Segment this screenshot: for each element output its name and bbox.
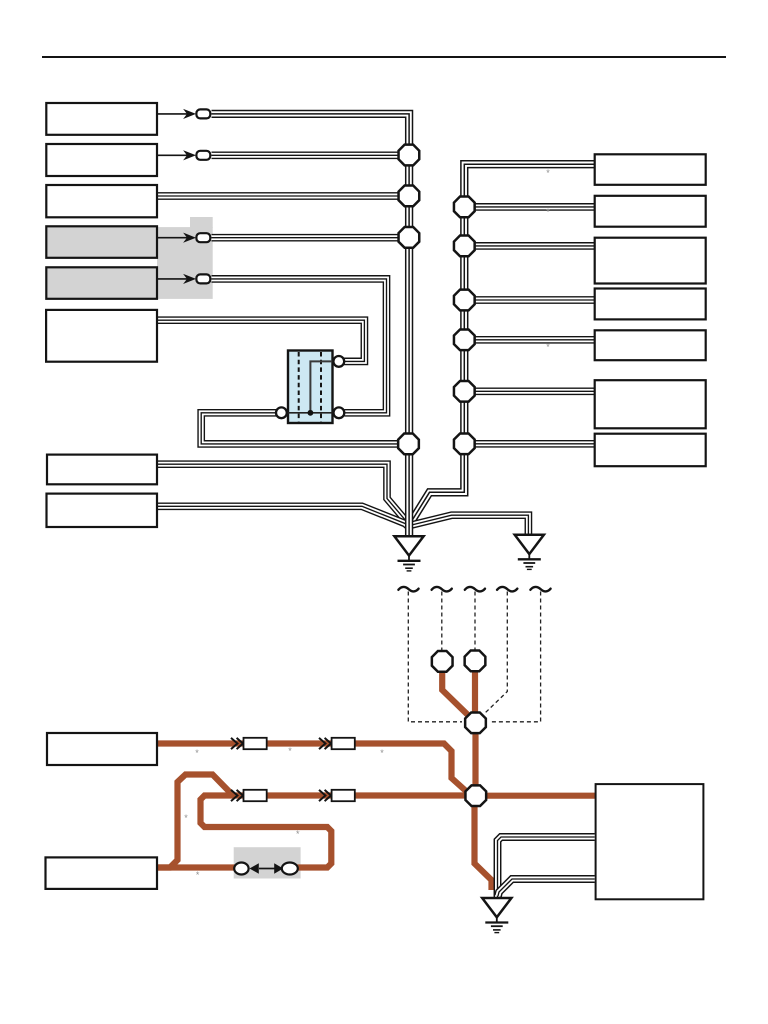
wire from box B4 (212, 234, 400, 242)
ground symbol T2 (515, 535, 544, 570)
connector pair thin link line (259, 868, 275, 870)
box B2 (46, 144, 157, 176)
triple wire bundle A from big box (498, 837, 595, 897)
box B1 (46, 103, 157, 135)
brown wire octagon D to big box (486, 793, 596, 799)
inline connector rect row1 b (332, 738, 355, 749)
svg-text:*: * (288, 746, 292, 756)
brown wire loop from connector pair back through row2 to octagon D (201, 796, 466, 868)
wire from box B8 to ground point (157, 506, 409, 527)
wire from box B2 (212, 151, 400, 159)
inline connector rect row2 a (244, 790, 267, 801)
junction connector internal busbar (310, 361, 333, 412)
dashed link 5 (490, 592, 541, 722)
box R6 (595, 380, 706, 428)
brown wire box BL2 up-and-over to row2 (157, 775, 233, 868)
brown wire octagon A to octagon C (442, 668, 470, 717)
box B6 (46, 310, 157, 362)
chevron connector row2 a (231, 790, 243, 801)
brown wire octagon C to octagon D (472, 730, 478, 788)
box R1 (595, 154, 706, 185)
inline connector rect row2 b (332, 790, 355, 801)
dashed link 1 (408, 592, 462, 722)
junction connector dashed split lines (298, 352, 300, 422)
wire to box R4 (464, 296, 595, 304)
junction connector internal joint dot (308, 410, 314, 416)
break tilde 1 (398, 587, 418, 592)
connector symbol on B5 wire (157, 274, 210, 283)
octagon node B (465, 651, 486, 672)
big box ECU (596, 784, 704, 899)
svg-text:*: * (296, 829, 300, 839)
ground symbol T1 (394, 536, 423, 571)
wire from box B3 (157, 192, 399, 200)
junction connector pin bottom right (334, 407, 345, 418)
connector symbol on B2 wire (157, 151, 210, 160)
wire to box R6 (464, 387, 595, 395)
dashed link 4 (485, 592, 508, 714)
svg-text:*: * (546, 168, 550, 178)
octagon node right bus 3 (454, 290, 475, 311)
brown wire box BL2 to connector pair (157, 864, 240, 870)
octagon node D (465, 785, 486, 806)
wire to box R3 (464, 242, 595, 250)
wire to box R5 (464, 336, 595, 344)
brown wire octagon B to octagon C (472, 668, 478, 715)
chevron connector row1 b (319, 738, 331, 749)
box B8 (47, 494, 158, 527)
wire to box R7 (464, 440, 595, 448)
chevron connector row1 a (231, 738, 243, 749)
chevron connector row2 b (319, 790, 331, 801)
break tilde 5 (530, 587, 550, 592)
right bus with wire to box R1 and drop to ground point (410, 164, 595, 524)
brown wire row1 from box BL1 (157, 744, 467, 792)
svg-text:*: * (546, 207, 550, 217)
octagon node left bus 3 (399, 227, 420, 248)
box R3 (595, 238, 706, 284)
dashed link 2 (441, 592, 443, 651)
svg-text:*: * (195, 748, 199, 758)
box R7 (595, 434, 706, 467)
svg-text:*: * (380, 748, 384, 758)
svg-text:*: * (546, 342, 550, 352)
brown wire octagon D down to ground T3 (475, 806, 492, 890)
octagon node left bus 4 (398, 434, 419, 455)
octagon node right bus 4 (454, 329, 475, 350)
box BL1 (47, 733, 157, 765)
octagon node right bus 2 (454, 236, 475, 257)
triple wire bundle B from big box (498, 879, 595, 896)
box R4 (595, 289, 706, 320)
break tilde 4 (497, 587, 517, 592)
box B7 (47, 455, 157, 485)
connector symbol on B1 wire (157, 109, 210, 118)
svg-text:*: * (184, 813, 188, 823)
octagon node A (432, 651, 453, 672)
connector symbol on B4 wire (157, 233, 210, 242)
footnote asterisk marks (184, 168, 550, 880)
wire from box B5 to junction connector (212, 279, 387, 413)
gray shade behind connector pair (234, 847, 301, 878)
inline connector rect row1 a (244, 738, 267, 749)
connector pair right arrow (274, 863, 283, 873)
junction connector J1 body (288, 351, 333, 424)
octagon node right bus 1 (454, 197, 475, 218)
svg-text:*: * (196, 870, 200, 880)
wire node to right ground T2 (410, 515, 529, 535)
octagon node right bus 5 (454, 381, 475, 402)
wire junction connector to node E octagon (201, 413, 399, 444)
octagon node C (465, 712, 486, 733)
box R2 (595, 196, 706, 227)
octagon node left bus 2 (399, 186, 420, 207)
connector pair right ellipse (282, 863, 298, 875)
wire from box B7 to ground point (157, 464, 409, 527)
wire from box B6 to junction connector (157, 320, 364, 361)
left main bus from box B1 down to ground T1 (212, 114, 410, 537)
octagon node right bus 6 (454, 433, 475, 454)
box B5 shaded (46, 267, 157, 299)
box B3 (46, 185, 157, 217)
box R5 (595, 330, 706, 360)
top rule (42, 56, 726, 58)
break tilde 3 (465, 587, 485, 592)
box B4 shaded (46, 226, 157, 257)
connector pair left arrow (250, 863, 259, 873)
dashed link 3 (474, 592, 476, 651)
wire to box R2 (464, 203, 595, 211)
ground symbol T3 (482, 898, 511, 933)
connector pair left ellipse (234, 863, 248, 875)
junction connector pin bottom left (276, 407, 287, 418)
octagon node left bus 1 (399, 145, 420, 166)
break tilde 2 (432, 587, 452, 592)
box BL2 (46, 857, 158, 889)
junction connector pin top right (333, 356, 344, 367)
gray shade behind relay boxes (190, 217, 213, 228)
